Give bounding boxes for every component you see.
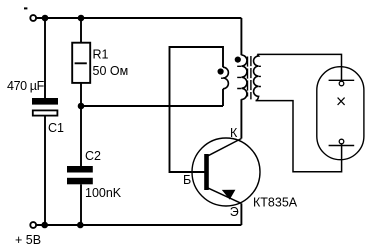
transistor VT1: collector lead: [207, 139, 241, 157]
lamp HL1: top electrode bar: [329, 79, 355, 81]
wire: C1 bottom lead: [44, 116, 46, 225]
polarity dot: feedback winding: [218, 68, 224, 74]
wire: primary bottom to collector: [240, 99, 242, 138]
node: top rail / C1 junction: [42, 15, 49, 22]
node: bottom rail / C2 junction: [77, 222, 84, 229]
svg-text:КТ835А: КТ835А: [253, 196, 298, 210]
terminal: top-left supply input: [30, 15, 36, 21]
wire: feedback loop top edge: [170, 47, 224, 106]
node: R1 / C2 / feedback-winding junction: [78, 103, 85, 110]
resistor R1 inner marking line: [75, 62, 87, 64]
capacitor C2 (top plate): [67, 166, 93, 173]
lamp HL1: bottom electrode bar: [329, 145, 355, 147]
lamp HL1: bottom electrode bead: [339, 139, 344, 144]
wire: feedback winding bottom return to R1/C2 node: [81, 105, 223, 107]
svg-text:К: К: [230, 126, 238, 140]
secondary winding cusp curls: [259, 66, 261, 86]
svg-text:Э: Э: [230, 205, 239, 219]
wire: C1 top lead: [44, 18, 46, 98]
resistor R1 (rectangle body): [72, 43, 90, 83]
feedback winding cusp curl: [221, 77, 223, 79]
wire: emitter to bottom rail: [240, 203, 242, 225]
node: bottom rail / C1 junction: [41, 222, 48, 229]
label: minus polarity mark: [24, 7, 27, 9]
svg-text:R1: R1: [93, 47, 109, 61]
polarity dot: primary winding: [235, 57, 241, 63]
winding: transformer T1 feedback coil (2 turns): [223, 67, 228, 89]
transistor VT1: emitter arrow: [222, 190, 236, 200]
wire: C2 bottom lead: [80, 184, 82, 225]
svg-text:100nK: 100nK: [85, 186, 122, 200]
wire: R1 top lead: [80, 18, 82, 43]
svg-text:C1: C1: [48, 121, 64, 135]
primary winding cusp curls: [237, 66, 241, 88]
wire: top supply rail: [36, 17, 241, 19]
transformer core (line 2): [250, 56, 252, 99]
transistor VT1: base bar: [204, 154, 209, 190]
lamp HL1: glass envelope: [317, 67, 364, 160]
wire: bottom supply rail: [36, 224, 241, 226]
svg-text:Б: Б: [183, 173, 191, 187]
transformer core (line 1): [247, 57, 249, 97]
svg-text:470 µF: 470 µF: [7, 79, 45, 93]
wire: top rail down to primary winding: [240, 18, 242, 55]
capacitor C2 (bottom plate): [67, 178, 93, 185]
lamp HL1: x mark: [338, 98, 345, 105]
lamp HL1: top electrode bead: [339, 81, 344, 86]
winding: transformer T1 primary coil (4 turns): [241, 55, 247, 99]
capacitor C1 (electrolytic, plus plate): [32, 98, 58, 105]
wire: feedback coil bottom stub: [222, 89, 224, 106]
node: top rail / R1 junction: [78, 15, 85, 22]
transistor VT1 КТ835А: body circle: [192, 138, 260, 206]
svg-text:+ 5В: + 5В: [15, 233, 41, 247]
transistor VT1: emitter lead: [207, 188, 241, 204]
svg-text:50 Ом: 50 Ом: [93, 64, 129, 78]
svg-text:C2: C2: [85, 149, 101, 163]
wire: secondary bottom to lamp bottom electrode: [256, 101, 342, 172]
wire: feedback loop left edge down to base: [170, 106, 207, 172]
terminal: bottom-left supply input: [30, 222, 36, 228]
wire: C2 top lead: [80, 106, 82, 166]
capacitor C1 (minus plate outline): [33, 110, 58, 115]
wire: secondary top to lamp top electrode: [257, 54, 341, 81]
winding: transformer T1 secondary coil (4 turns): [254, 54, 259, 100]
wire: R1 bottom lead: [80, 83, 82, 106]
